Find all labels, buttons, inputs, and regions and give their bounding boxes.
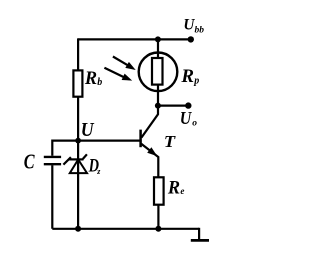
transistor emitter lead	[141, 144, 158, 178]
svg-text:T: T	[164, 132, 176, 151]
svg-text:R: R	[180, 67, 194, 87]
svg-text:e: e	[180, 186, 184, 196]
junction dot bottom left vertical	[75, 226, 81, 232]
resistor Re	[154, 177, 164, 204]
zener diode Dz	[63, 154, 87, 173]
wire Uo tap	[158, 104, 188, 106]
wire capacitor branch	[52, 141, 78, 229]
svg-text:p: p	[193, 76, 199, 87]
node Uo junction dot	[155, 103, 161, 109]
svg-text:R: R	[84, 69, 97, 89]
light arrow 2	[104, 68, 132, 81]
svg-text:bb: bb	[195, 25, 205, 35]
capacitor C	[44, 157, 61, 164]
light arrow 1	[113, 57, 136, 71]
svg-text:U: U	[180, 108, 192, 128]
svg-text:b: b	[97, 77, 102, 88]
node Ubb terminal dot	[188, 36, 194, 42]
svg-text:U: U	[81, 120, 95, 141]
wire Rp branch vertical	[157, 39, 159, 105]
svg-text:U: U	[183, 17, 195, 34]
ground	[198, 228, 200, 239]
svg-text:R: R	[167, 178, 180, 198]
transistor T base bar	[139, 130, 142, 148]
wire Re to ground rail	[157, 205, 159, 229]
junction dot bottom emitter branch	[155, 226, 161, 232]
photoresistor Rp circle	[139, 53, 178, 92]
wire top rail	[78, 38, 191, 40]
transistor collector lead	[141, 106, 158, 138]
resistor Rb	[73, 70, 82, 96]
transistor emitter arrow	[147, 147, 157, 156]
svg-text:o: o	[192, 119, 197, 129]
node junction top of Rp branch	[155, 36, 161, 42]
node U junction dot	[75, 138, 81, 144]
wire left vertical	[77, 38, 79, 228]
wire base	[78, 140, 140, 142]
node Uo terminal dot	[185, 102, 191, 108]
photoresistor Rp body	[152, 58, 163, 85]
wire bottom rail	[52, 228, 199, 230]
svg-text:C: C	[24, 150, 36, 174]
